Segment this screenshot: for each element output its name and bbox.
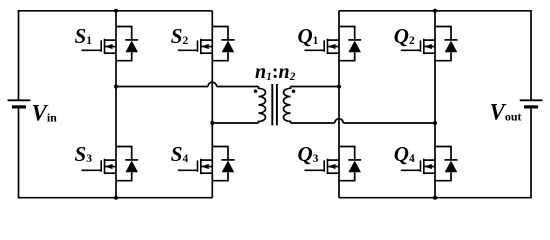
transformer T1 primary winding [259, 87, 266, 124]
wire: vertical bus leg Q2/Q4 [434, 11, 436, 198]
transistor S2 [178, 27, 235, 61]
transistor Q1 [305, 27, 362, 61]
junction node J8 [433, 196, 437, 200]
wire: top rail right bridge [339, 10, 531, 12]
transistor S4 [178, 147, 235, 181]
svg-text:S2: S2 [171, 24, 189, 48]
wire: primary top lead with crossover hop [116, 82, 259, 86]
junction node J5 [337, 85, 341, 89]
wire: left rail with source gap [18, 10, 20, 199]
svg-text:n1:n2: n1:n2 [255, 61, 296, 83]
wire: vertical bus leg S2/S4 [211, 11, 213, 198]
wire: right rail with source gap [530, 10, 532, 199]
junction node J7 [433, 121, 437, 125]
svg-text:S4: S4 [171, 142, 189, 166]
junction node J4 [210, 121, 214, 125]
voltage source Vin battery plates [8, 100, 31, 107]
wire: bottom rail right bridge [339, 197, 531, 199]
voltage source Vout battery plates [520, 100, 543, 107]
junction node J2 [114, 85, 118, 89]
transformer polarity dot primary [254, 90, 257, 93]
svg-text:Vin: Vin [32, 101, 58, 126]
wire: vertical bus leg S1/S3 [115, 11, 117, 198]
wire: secondary top lead [291, 86, 340, 88]
wire: secondary bottom lead with crossover hop [291, 119, 436, 123]
svg-text:Q3: Q3 [298, 142, 319, 166]
svg-text:Q2: Q2 [394, 24, 415, 48]
svg-text:Q1: Q1 [298, 24, 319, 48]
transformer T1 core [272, 84, 277, 125]
wire: bottom rail left bridge [19, 197, 213, 199]
transformer T1 secondary winding [284, 87, 291, 124]
junction node J1 [114, 9, 118, 13]
transformer polarity dot secondary [292, 90, 295, 93]
transistor Q3 [305, 147, 362, 181]
transistor S1 [82, 27, 139, 61]
wire: top rail left bridge [19, 10, 213, 12]
transistor S3 [82, 147, 139, 181]
wire: vertical bus leg Q1/Q3 [338, 11, 340, 198]
transistor Q4 [401, 147, 458, 181]
transistor Q2 [401, 27, 458, 61]
svg-text:Vout: Vout [490, 100, 522, 125]
svg-text:Q4: Q4 [394, 142, 415, 166]
junction node J6 [433, 9, 437, 13]
svg-text:S3: S3 [75, 142, 93, 166]
wire: primary bottom lead [212, 122, 258, 124]
svg-text:S1: S1 [75, 24, 93, 48]
junction node J3 [114, 196, 118, 200]
